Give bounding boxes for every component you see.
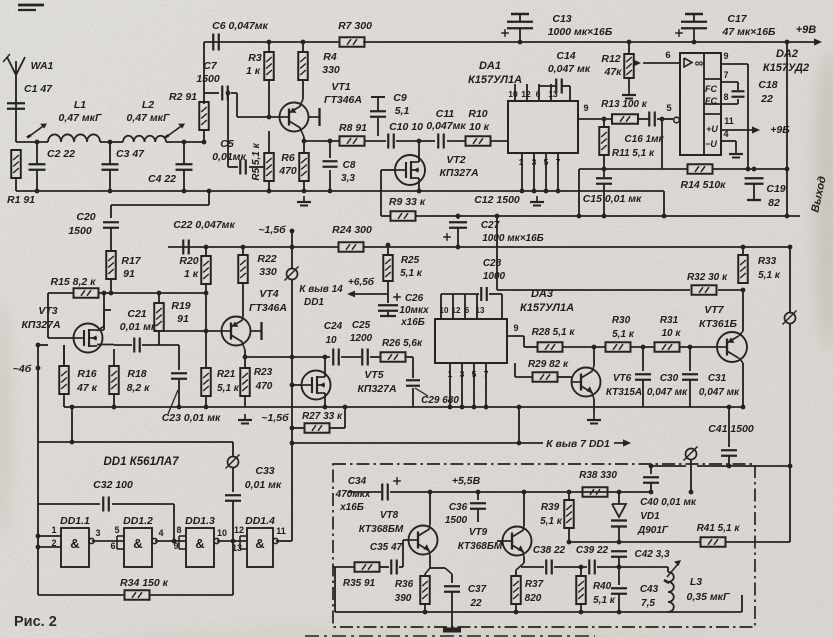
svg-text:DD1: DD1 [304,297,324,308]
svg-text:R4: R4 [323,51,337,63]
svg-text:390: 390 [395,593,412,604]
svg-text:5,1 к: 5,1 к [400,268,423,279]
svg-text:К выв 14: К выв 14 [299,284,343,295]
svg-text:5,1 к: 5,1 к [217,383,240,394]
svg-text:L2: L2 [142,99,154,111]
svg-text:R8 91: R8 91 [339,122,367,134]
svg-text:С9: С9 [393,92,407,104]
svg-text:1 к: 1 к [184,268,199,280]
svg-text:1: 1 [519,157,524,167]
svg-text:С21: С21 [127,308,146,320]
svg-text:0,047 мк: 0,047 мк [699,387,740,398]
svg-text:6: 6 [536,89,541,99]
svg-text:R33: R33 [758,256,777,267]
svg-text:С5: С5 [220,138,234,150]
svg-text:7: 7 [484,369,489,379]
svg-text:R14 510к: R14 510к [680,179,726,191]
svg-text:&: & [195,536,204,551]
svg-text:10: 10 [508,89,518,99]
svg-text:R40: R40 [593,581,612,592]
svg-text:С15 0,01 мк: С15 0,01 мк [583,193,642,205]
svg-text:С17: С17 [727,13,747,25]
svg-text:ГТ346А: ГТ346А [324,94,362,106]
svg-text:С2 22: С2 22 [47,148,75,160]
svg-text:0,01 мк: 0,01 мк [245,479,282,491]
svg-text:VT1: VT1 [331,81,350,93]
svg-text:6: 6 [465,306,470,315]
svg-text:R15 8,2 к: R15 8,2 к [50,276,96,288]
svg-text:1000: 1000 [483,271,506,282]
svg-text:КП327А: КП327А [357,383,396,395]
svg-text:DD1 К561ЛА7: DD1 К561ЛА7 [103,456,179,468]
svg-text:С30: С30 [660,373,679,384]
svg-text:VT7: VT7 [704,304,724,316]
svg-text:+5,5В: +5,5В [452,475,481,487]
svg-text:R5 5,1 к: R5 5,1 к [251,142,262,180]
svg-text:R34 150 к: R34 150 к [120,577,169,589]
svg-text:С1 47: С1 47 [24,83,53,95]
svg-text:0,47 мкГ: 0,47 мкГ [59,112,102,124]
svg-text:~4б: ~4б [13,363,32,375]
svg-text:КТ361Б: КТ361Б [699,318,738,330]
svg-text:С4 22: С4 22 [148,173,176,185]
svg-text:1: 1 [448,369,453,379]
svg-text:R10: R10 [468,108,487,120]
svg-text:С35 47: С35 47 [370,542,403,553]
svg-text:DD1.2: DD1.2 [123,515,153,527]
svg-text:5: 5 [544,157,549,167]
svg-text:+9В: +9В [796,24,817,36]
svg-text:5,1 к: 5,1 к [593,595,616,606]
svg-text:470: 470 [255,381,273,392]
svg-text:DD1.1: DD1.1 [60,515,90,527]
svg-text:∞: ∞ [695,56,704,70]
svg-text:1 к: 1 к [246,65,261,77]
svg-text:R22: R22 [257,253,276,265]
svg-text:7,5: 7,5 [641,598,655,609]
svg-text:330: 330 [322,64,340,76]
svg-text:820: 820 [525,593,542,604]
svg-text:С34: С34 [348,476,367,487]
svg-text:1000 мк×16Б: 1000 мк×16Б [482,233,544,244]
svg-text:22: 22 [469,598,482,609]
svg-text:VT2: VT2 [446,154,465,166]
svg-text:5: 5 [666,103,672,114]
svg-text:1500: 1500 [196,73,220,85]
svg-text:R11 5,1 к: R11 5,1 к [612,148,655,159]
svg-text:10: 10 [217,528,227,538]
svg-text:VT3: VT3 [38,305,57,317]
svg-text:47 к: 47 к [76,382,98,394]
svg-text:КП327А: КП327А [439,167,478,179]
svg-text:5,1 к: 5,1 к [540,516,563,527]
svg-text:С14: С14 [556,50,575,62]
svg-text:R29 82 к: R29 82 к [528,359,569,370]
svg-text:R26 5,6к: R26 5,6к [382,338,423,349]
svg-text:х16Б: х16Б [339,502,364,513]
svg-text:КТ368БМ: КТ368БМ [458,541,503,552]
svg-text:КП327А: КП327А [21,319,60,331]
svg-text:R37: R37 [525,579,544,590]
svg-text:6: 6 [110,541,115,551]
svg-text:0,047 мк: 0,047 мк [647,387,688,398]
svg-text:С43: С43 [640,584,659,595]
svg-text:С39 22: С39 22 [576,545,609,556]
svg-text:R2 91: R2 91 [169,91,197,103]
svg-text:R31: R31 [660,315,679,326]
svg-text:VD1: VD1 [640,511,660,522]
svg-text:С25: С25 [352,320,371,331]
svg-text:L1: L1 [74,99,86,111]
svg-text:8: 8 [723,92,728,102]
svg-text:С23 0,01 мк: С23 0,01 мк [162,412,221,424]
svg-text:С26: С26 [405,293,424,304]
svg-text:WA1: WA1 [31,60,54,72]
svg-text:С12 1500: С12 1500 [474,194,520,206]
svg-text:13: 13 [476,306,485,315]
svg-text:L3: L3 [690,576,702,588]
svg-text:5: 5 [472,369,477,379]
svg-text:7: 7 [556,157,561,167]
svg-text:2: 2 [51,538,56,548]
svg-text:С13: С13 [552,13,571,25]
svg-text:&: & [255,536,264,551]
svg-text:8,2 к: 8,2 к [127,382,151,394]
svg-text:R19: R19 [171,300,190,312]
svg-text:DD1.4: DD1.4 [245,515,275,527]
svg-text:R18: R18 [127,368,146,380]
svg-text:КТ315А: КТ315А [606,387,642,398]
svg-text:R36: R36 [395,579,414,590]
svg-text:С29 680: С29 680 [421,395,459,406]
svg-text:R17: R17 [121,255,141,267]
svg-text:С24: С24 [324,321,343,332]
svg-text:470мкх: 470мкх [335,489,371,500]
svg-text:R30: R30 [612,315,631,326]
svg-text:ГТ346А: ГТ346А [249,302,287,314]
svg-text:С28: С28 [483,258,502,269]
svg-text:91: 91 [177,313,189,325]
svg-text:1500: 1500 [445,515,468,526]
svg-text:11: 11 [276,526,286,536]
svg-text:1: 1 [51,525,56,535]
svg-text:−U: −U [705,139,717,149]
svg-text:R41 5,1 к: R41 5,1 к [697,523,741,534]
svg-text:10 к: 10 к [469,121,490,133]
svg-text:0,047 мк: 0,047 мк [548,63,591,75]
svg-text:С7: С7 [203,60,218,72]
svg-text:10: 10 [440,306,449,315]
svg-text:11: 11 [724,116,734,126]
svg-text:R9 33 к: R9 33 к [389,196,426,208]
svg-text:КТ368БМ: КТ368БМ [359,524,404,535]
svg-text:R35 91: R35 91 [343,578,376,589]
svg-text:1000 мк×16Б: 1000 мк×16Б [548,26,613,38]
svg-text:5,1 к: 5,1 к [758,270,781,281]
svg-text:R20: R20 [179,255,198,267]
svg-text:9: 9 [173,541,178,551]
svg-text:3: 3 [532,157,537,167]
svg-text:1500: 1500 [68,225,92,237]
svg-text:К157УЛ1А: К157УЛ1А [520,302,574,314]
svg-text:~1,5б: ~1,5б [258,224,286,236]
svg-text:С31: С31 [708,373,727,384]
svg-text:Д901Г: Д901Г [637,525,669,536]
svg-text:VT8: VT8 [380,510,399,521]
svg-text:0,01 мк: 0,01 мк [120,321,157,333]
svg-text:+U: +U [706,124,718,134]
svg-text:0,35 мкГ: 0,35 мкГ [687,591,730,603]
svg-text:С18: С18 [758,79,777,91]
svg-text:С37: С37 [468,584,487,595]
svg-text:С38 22: С38 22 [533,545,566,556]
svg-text:R3: R3 [248,52,262,64]
svg-text:3: 3 [460,369,465,379]
svg-text:330: 330 [259,266,277,278]
svg-text:R24 300: R24 300 [332,224,372,236]
svg-text:R25: R25 [401,255,420,266]
svg-text:R38 330: R38 330 [579,470,617,481]
svg-text:&: & [70,536,79,551]
svg-text:12: 12 [452,306,461,315]
svg-text:С16 1мк: С16 1мк [624,134,664,145]
svg-text:R12: R12 [601,53,620,65]
svg-text:С22 0,047мк: С22 0,047мк [173,219,235,231]
svg-text:R23: R23 [254,367,273,378]
svg-text:С33: С33 [255,465,274,477]
svg-text:R13 100 к: R13 100 к [601,99,648,110]
svg-text:х16Б: х16Б [400,317,425,328]
svg-text:12: 12 [521,89,531,99]
svg-text:К157УЛ1А: К157УЛ1А [468,74,522,86]
svg-text:FC: FC [705,84,717,94]
svg-text:VT9: VT9 [469,527,488,538]
svg-text:47к: 47к [603,66,622,78]
svg-text:R28 5,1 к: R28 5,1 к [532,327,576,338]
svg-text:5: 5 [114,525,119,535]
svg-text:3: 3 [95,528,100,538]
svg-text:R16: R16 [77,368,96,380]
svg-text:9: 9 [583,103,588,113]
svg-text:1200: 1200 [350,333,373,344]
svg-text:9: 9 [513,323,518,333]
svg-text:С36: С36 [449,502,468,513]
svg-text:VT6: VT6 [613,373,632,384]
svg-text:FC: FC [705,96,717,106]
svg-text:VT4: VT4 [259,288,278,300]
svg-text:R32 30 к: R32 30 к [687,272,728,283]
svg-text:С20: С20 [76,211,95,223]
svg-text:5,1: 5,1 [395,105,410,117]
svg-text:22: 22 [760,93,773,105]
svg-text:0,01мк: 0,01мк [212,151,246,163]
svg-text:R21: R21 [217,369,236,380]
svg-text:С41 1500: С41 1500 [708,423,754,435]
svg-text:7: 7 [723,70,728,80]
svg-text:VT5: VT5 [364,369,383,381]
svg-text:6: 6 [665,50,670,61]
svg-text:470: 470 [278,165,297,177]
svg-text:С6 0,047мк: С6 0,047мк [212,20,268,32]
svg-text:К выв 7 DD1: К выв 7 DD1 [546,438,610,450]
svg-text:12: 12 [234,525,244,535]
svg-text:5,1 к: 5,1 к [612,329,635,340]
svg-text:С10 10: С10 10 [389,121,423,133]
svg-text:91: 91 [123,268,135,280]
svg-text:С32 100: С32 100 [93,479,133,491]
svg-text:R39: R39 [541,502,560,513]
svg-text:8: 8 [176,525,181,535]
svg-text:Рис. 2: Рис. 2 [14,614,57,630]
svg-text:+6,5б: +6,5б [348,276,375,288]
svg-text:С42 3,3: С42 3,3 [634,549,669,560]
svg-text:R7 300: R7 300 [338,20,372,32]
svg-text:~1,5б: ~1,5б [261,412,289,424]
svg-text:С11: С11 [436,108,455,120]
svg-text:4: 4 [158,528,163,538]
svg-text:R27 33 к: R27 33 к [302,411,343,422]
svg-text:10мкх: 10мкх [399,305,429,316]
svg-text:К157УД2: К157УД2 [763,62,809,74]
svg-text:10 к: 10 к [662,328,682,339]
svg-text:10: 10 [325,335,337,346]
svg-text:DA1: DA1 [479,60,501,72]
svg-text:3,3: 3,3 [341,173,355,184]
svg-text:9: 9 [723,51,728,61]
svg-text:С3 47: С3 47 [116,148,145,160]
svg-text:82: 82 [768,197,780,209]
svg-text:R6: R6 [281,152,295,164]
svg-text:R1 91: R1 91 [7,194,35,206]
svg-text:С40 0,01 мк: С40 0,01 мк [640,497,697,508]
svg-text:0,047мк: 0,047мк [426,120,466,132]
svg-text:С19: С19 [766,183,785,195]
svg-text:&: & [133,536,142,551]
svg-text:47 мк×16Б: 47 мк×16Б [722,26,776,38]
svg-text:С8: С8 [343,160,356,171]
svg-text:DD1.3: DD1.3 [185,515,215,527]
svg-text:0,47 мкГ: 0,47 мкГ [127,112,170,124]
